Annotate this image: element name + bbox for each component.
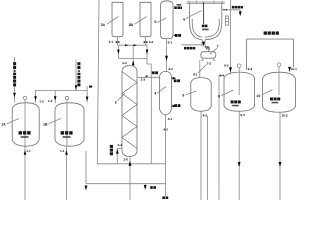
wire vessel 1B drain — [65, 146, 67, 200]
svg-text:2: 2 — [115, 100, 117, 104]
wire label 5 leader — [157, 18, 166, 23]
wire stub 10-1 with arrow — [289, 67, 291, 72]
svg-text:4: 4 — [154, 92, 156, 96]
wire column 3B outlet stub — [145, 37, 147, 46]
wire feed manifold over 1A/1B — [35, 89, 87, 91]
svg-text:2-5: 2-5 — [123, 158, 128, 162]
svg-text:4-1: 4-1 — [168, 117, 173, 121]
svg-text:1B: 1B — [43, 122, 48, 126]
svg-text:10-1: 10-1 — [291, 67, 297, 71]
wire label 1A leader — [7, 118, 19, 123]
wire stream 1 arrow — [13, 93, 16, 98]
wire manifold flow arrow right 1 — [125, 44, 129, 46]
svg-text:5-1: 5-1 — [168, 40, 173, 44]
node column 2 coil zigzag — [122, 71, 137, 148]
wire stub arrow into 1B — [86, 97, 89, 102]
wire bottom line mid down stub — [144, 184, 146, 185]
wire label 8 leader — [186, 91, 197, 95]
wire manifold left down arrow — [117, 50, 120, 55]
node vertical stream text at 2-4 — [110, 145, 113, 155]
wire reactor 6 outlet neck — [202, 40, 208, 52]
svg-text:1-1: 1-1 — [26, 149, 31, 153]
wire solid alkali output line from reactor — [181, 44, 202, 46]
wire manifold stub into 1B — [54, 90, 56, 103]
node solid alkali text — [184, 47, 195, 50]
svg-text:10-2: 10-2 — [281, 114, 287, 118]
wire output line arrow — [202, 42, 205, 47]
node vessel 1B motor circle — [65, 96, 68, 99]
node stream 1 vertical text — [13, 62, 16, 86]
wire arrow into column 5 right-bottom — [173, 34, 176, 36]
wire steam line down stub with arrow — [239, 10, 241, 12]
wire manifold flow arrow right 2 — [133, 44, 137, 46]
svg-text:3A: 3A — [101, 23, 106, 27]
svg-text:7-1: 7-1 — [205, 45, 210, 49]
wire label 9 leader — [221, 90, 233, 96]
vessel 1B — [55, 103, 84, 146]
node column 3A outlet ticks — [116, 41, 120, 44]
wire vessel 9 drain — [238, 111, 240, 200]
wire label 7-2 leader — [198, 64, 206, 72]
svg-text:2-3: 2-3 — [141, 78, 146, 82]
wire column 4 bottom drain — [164, 115, 166, 196]
node steam heating text — [232, 6, 243, 9]
wire vessel 10 drain — [279, 112, 281, 200]
wire stream 2 arrow — [75, 85, 78, 90]
wire column 3A outlet stub — [117, 37, 119, 46]
wire vessel 9 drain arrow — [238, 162, 241, 167]
node tiny text near bottom line — [150, 186, 156, 189]
column 3A — [112, 2, 123, 36]
vessel 9 — [224, 72, 255, 111]
wire 1B drain arrow — [65, 150, 68, 155]
svg-text:9-4: 9-4 — [248, 67, 253, 71]
reactor 6 body — [190, 3, 222, 39]
node circulating water text — [264, 31, 279, 34]
wire label 1B leader — [48, 118, 61, 123]
wire manifold to column 2 feed — [132, 45, 134, 66]
svg-text:3-2: 3-2 — [149, 40, 154, 44]
wire riser up arrow into column 2 — [129, 161, 132, 166]
reactor 6 flange — [186, 2, 224, 3]
wire vessel 10 agitator stem — [278, 67, 280, 95]
wire left stub of bottom line — [85, 151, 87, 184]
wire vessel 1B agitator stem — [66, 100, 68, 146]
node tiny mark above manifold corner — [89, 86, 92, 88]
svg-text:3B: 3B — [129, 23, 134, 27]
wire 1A drain arrow — [24, 150, 27, 155]
node reactor 6 interior text — [202, 25, 209, 31]
wire steam heating line — [222, 9, 240, 11]
svg-text:2-2: 2-2 — [122, 61, 127, 65]
wire column 4 right output arrow (upper) — [172, 77, 176, 79]
svg-text:4-3: 4-3 — [163, 127, 168, 131]
node vessel 1B interior text — [61, 131, 73, 138]
wire bottom collection line — [86, 183, 165, 185]
wire vessel 9 agitator stem — [238, 68, 240, 95]
wire column 2 feed up arrow — [132, 60, 135, 65]
column 5 — [161, 1, 174, 39]
wire vessel 8 second drain — [206, 116, 208, 200]
svg-text:7: 7 — [217, 45, 219, 49]
node reactor 6 flange ticks — [189, 1, 222, 4]
node column 5 right-bottom stream text — [175, 34, 181, 37]
node vessel 10 interior text — [270, 97, 280, 103]
column 3B — [140, 2, 151, 36]
wire label 4 leader — [157, 87, 166, 94]
wire column 2 bottom feed nozzle 2-4 — [117, 148, 122, 163]
wire pipe from device 7 to vessel 8 — [199, 60, 201, 77]
wire label 2 leader — [118, 93, 125, 101]
node reactor 6 inner jacket — [192, 19, 219, 37]
node stream inlet line 2 — [75, 60, 77, 90]
svg-text:9-1: 9-1 — [220, 73, 225, 77]
svg-text:2-4: 2-4 — [118, 143, 123, 147]
wire nozzle 9-1 line — [219, 76, 225, 201]
node steam line valve — [224, 9, 227, 11]
wire pipe flow arrow down — [165, 56, 168, 61]
wire manifold stub into 1A — [34, 90, 36, 103]
node vessel 1A interior text — [19, 131, 31, 138]
wire column 2 bottom drain riser — [129, 157, 131, 200]
svg-text:5: 5 — [154, 20, 156, 24]
wire nozzle 2-4 up arrow — [116, 149, 119, 154]
wire label 3B leader — [135, 16, 147, 24]
svg-text:1-1: 1-1 — [60, 149, 65, 153]
wire label 6 leader — [186, 10, 202, 18]
node column 3B outlet ticks — [144, 41, 148, 44]
wire label 10 leader — [262, 90, 273, 95]
svg-text:9-2: 9-2 — [224, 64, 229, 68]
svg-text:9-3: 9-3 — [240, 113, 245, 117]
svg-text:1-2: 1-2 — [39, 99, 44, 103]
node stream 2 vertical text — [77, 62, 80, 86]
node stream inlet line 1 (left) — [13, 57, 15, 102]
svg-text:8-2: 8-2 — [203, 114, 208, 118]
node vessel 1A motor circle — [23, 96, 26, 99]
device 7 (pump) — [201, 52, 216, 59]
node reactor level gauge — [225, 16, 228, 25]
svg-text:1-2: 1-2 — [48, 99, 53, 103]
svg-text:7-2: 7-2 — [207, 62, 212, 66]
vessel 8 — [191, 78, 211, 112]
wire column 5 to column 4 pipe — [166, 39, 168, 71]
wire bottom line left down arrow — [85, 185, 88, 190]
wire vessel 1A drain — [24, 146, 26, 200]
node vessel 10 motor circle — [277, 63, 281, 67]
node device 7 feet — [201, 58, 216, 60]
wire manifold right stub into 1B — [86, 86, 88, 103]
wire column 4 right output arrow (lower) — [171, 105, 175, 107]
svg-text:8: 8 — [182, 94, 184, 98]
svg-text:4-2: 4-2 — [168, 67, 173, 71]
vessel 10 — [262, 72, 295, 112]
node column 4 lower output text — [174, 104, 180, 107]
wire manifold corner to riser — [147, 58, 151, 77]
wire long vertical pipe from top to bottom-left loop — [97, 0, 165, 164]
wire riser continues to bottom collection line — [150, 77, 152, 163]
wire bottom line mid down arrow — [144, 185, 147, 190]
svg-text:6: 6 — [183, 18, 185, 22]
wire line 2-3 from column 2 to column 4 — [137, 76, 160, 78]
column 2 (packed with coil) — [122, 66, 137, 157]
node stream text near 2-3 — [152, 71, 158, 74]
svg-text:10: 10 — [256, 94, 260, 98]
svg-text:9: 9 — [218, 95, 220, 99]
wire manifold right down arrow — [146, 50, 149, 55]
wire vessel 10 drain arrow — [279, 162, 282, 167]
wire vessel 1A agitator stem — [24, 100, 26, 146]
wire manifold rectangle below columns 3A/3B — [118, 45, 147, 58]
svg-text:1A: 1A — [1, 122, 6, 126]
column 4 — [159, 71, 171, 114]
wire vessel 8 drain — [200, 111, 202, 200]
node vessel 9 interior text — [231, 100, 241, 106]
wire line 2-3 flow arrow — [145, 75, 147, 77]
node tiny text at drain bottom — [162, 196, 168, 199]
svg-text:8-1: 8-1 — [193, 72, 198, 76]
node column 4 upper output text — [174, 79, 180, 82]
node circulating water box — [247, 39, 294, 70]
vessel 1A — [12, 103, 39, 146]
wire pipe 9-2 from top — [230, 0, 232, 74]
wire reactor 6 agitator shaft — [203, 2, 205, 24]
wire manifold stub arrow 1A — [34, 96, 37, 101]
wire manifold stub arrow 1B — [54, 96, 57, 101]
node column 5 top-right tiny text — [174, 4, 182, 9]
wire label 7 leader — [210, 48, 218, 54]
node vessel 9 motor circle — [237, 64, 241, 68]
svg-text:3-1: 3-1 — [109, 40, 114, 44]
wire label 3A leader — [107, 16, 119, 24]
wire pipe 9-2 arrow — [229, 67, 232, 72]
